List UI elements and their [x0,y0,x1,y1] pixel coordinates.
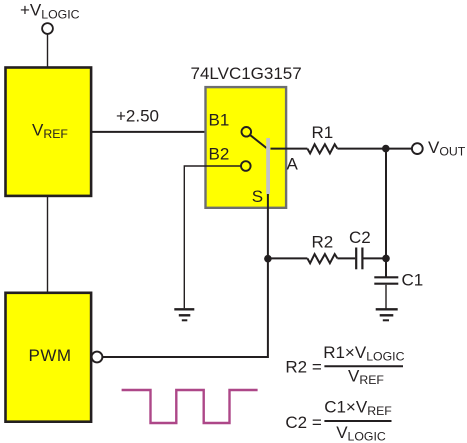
block U1 switch 74LVC1G3157 [206,87,287,208]
ground under B2 [174,308,194,310]
junction node R1 output [382,145,390,153]
svg-text:C2: C2 [349,228,371,247]
svg-text:R2: R2 [312,233,334,252]
block PWM [6,293,92,422]
wire R2 to C2 [337,257,355,259]
wire S down from switch [267,194,269,259]
capacitor C1 [374,276,398,278]
PWM output terminal [92,352,103,363]
wire node to R2 [268,257,308,259]
pin B2 contact [241,161,251,171]
svg-text:74LVC1G3157: 74LVC1G3157 [191,64,302,83]
svg-text:A: A [287,155,299,174]
svg-text:VOUT: VOUT [428,138,466,159]
terminal VOUT [412,143,423,154]
wire +VLOGIC to VREF [47,34,49,67]
svg-text:VREF: VREF [348,367,384,388]
wire C1 to ground [385,285,387,309]
wire C2 to output node [364,257,387,259]
svg-text:C1: C1 [402,271,424,290]
wire PWM output to S node [102,259,268,357]
wire A to R1 [271,148,308,150]
svg-text:C2 =: C2 = [285,413,321,432]
svg-text:VLOGIC: VLOGIC [336,423,386,443]
svg-text:+2.50: +2.50 [116,106,159,125]
svg-text:+VLOGIC: +VLOGIC [20,0,80,21]
+VLOGIC terminal [42,23,53,34]
switch arm B1 to common [250,135,267,148]
wire output node down to C1 [385,149,387,277]
svg-text:R1×VLOGIC: R1×VLOGIC [323,343,404,364]
svg-text:B1: B1 [209,111,230,130]
svg-text:PWM: PWM [29,346,72,365]
svg-text:S: S [252,187,263,206]
svg-text:R2 =: R2 = [285,358,321,377]
resistor R1 [307,144,337,153]
svg-text:B2: B2 [209,145,230,164]
junction node C2/C1 [382,255,390,263]
resistor R2 [307,254,337,263]
junction node S/R2 [264,255,272,263]
svg-text:C1×VREF: C1×VREF [324,398,392,419]
capacitor C2 [355,248,357,270]
switch actuator bar [266,138,270,194]
wire R1 to VOUT [337,148,412,150]
wire VREF to B1 with +2.50 [91,131,242,133]
svg-text:R1: R1 [312,123,334,142]
PWM waveform [122,390,258,423]
ground under C1 [376,308,398,310]
wire B2 to ground [184,166,241,308]
wire VREF to PWM [47,197,49,292]
block VREF [6,68,92,196]
pin B1 contact [242,127,252,137]
